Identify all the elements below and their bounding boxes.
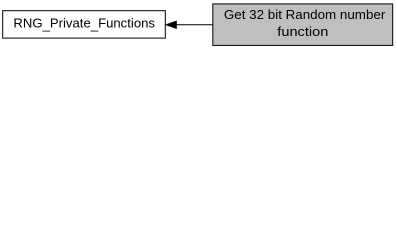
wire edge from grey node to RNG_Private_Functions <box>176 24 213 26</box>
node RNG_Private_Functions box <box>3 11 166 38</box>
arrowhead pointing at RNG_Private_Functions <box>166 21 176 28</box>
node Get 32 bit Random number function box (current, grey) <box>213 4 393 46</box>
background <box>0 0 397 52</box>
svg-text:Get 32 bit Random number: Get 32 bit Random number <box>224 7 386 22</box>
node Get 32 bit Random number function label line 2 <box>277 24 328 39</box>
node RNG_Private_Functions label <box>13 15 155 32</box>
svg-text:function: function <box>277 24 328 39</box>
svg-text:RNG_Private_Functions: RNG_Private_Functions <box>13 15 155 32</box>
node Get 32 bit Random number function label line 1 <box>224 7 386 22</box>
